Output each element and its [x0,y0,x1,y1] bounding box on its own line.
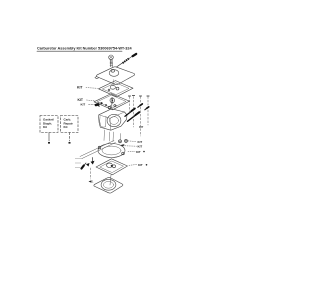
needle seat circle [125,139,128,142]
legend box 2 (Carb Repair Kit) [61,116,79,133]
dotted leader to pump gasket [87,99,95,102]
svg-text:KIT: KIT [81,102,86,106]
diaphragm center detail [107,163,113,167]
connector line to bottom cover [110,175,111,185]
svg-text:KIT: KIT [138,140,143,144]
small screw D [145,108,147,110]
svg-text:KIT: KIT [138,163,143,167]
svg-text:KIT: KIT [139,125,144,129]
pump diaphragm center detail [110,85,115,89]
needle screw N1 (diagonal, top right) [117,63,123,67]
carburetor body [99,109,127,130]
title underline [37,50,122,52]
dashed leader line (right col 1) [129,97,131,114]
svg-text:Carburetor Assembly Kit Number: Carburetor Assembly Kit Number 530069754… [37,46,132,50]
dash leader to small screw [89,103,96,105]
body bottom links [104,130,114,142]
dashed leader line (right col 3) [140,97,142,104]
svg-text:KIT: KIT [136,150,141,154]
body bore [107,114,121,126]
carburetor body top fittings [109,98,117,109]
gasket center circle [110,98,115,103]
svg-text:KIT: KIT [138,145,143,149]
spring arrow 2 [86,163,90,167]
svg-text:KIT: KIT [77,86,83,90]
pump cover screw hole line [113,80,115,86]
mounting screw B (diagonal right) [128,115,136,121]
metering gasket (oval) [98,144,125,158]
screw S1 pump cover screw head [109,55,114,60]
dotted leader to KIT label right [129,164,137,167]
idle screw assembly (lower left) [84,163,87,166]
gasket holes [100,102,102,104]
pump cover plate [96,67,134,85]
dashed leader line (right col 2) [133,97,135,109]
body left pump face [100,116,106,127]
tick marks top of dashed lines [128,95,149,98]
metering diaphragm plate [96,159,128,175]
svg-text:KIT: KIT [78,98,84,102]
bottom cover plate [94,178,123,194]
legend box 1 drop line [48,133,50,142]
dotted leads left of idle screw [76,159,83,168]
inlet screen circle [119,140,122,143]
legend box 2 drop line [69,133,71,142]
dotted leader 2 [125,145,137,147]
long pointer lines to idle screw [80,141,116,159]
svg-text:1: 1 [92,180,94,184]
mounting screw A (diagonal right) [125,111,132,116]
small screw near gasket [96,103,99,106]
dot after label 3 [143,151,145,153]
tiny arrow label [89,180,92,182]
pump cover corner tab [95,77,99,79]
dotted leader to pump diaphragm [86,87,98,90]
small screw C [138,105,141,107]
dotted leader 1 [128,140,137,143]
dotted leader 3 [128,150,135,152]
legend box 1 (Gasket/Diaph Kit) [40,116,58,133]
down arrow 1 [91,158,93,162]
svg-text:Kit: Kit [64,125,68,129]
pump cover boss [109,70,119,77]
small dash part [122,144,124,146]
screw S1 threaded shaft [110,60,112,67]
pump gasket plate [94,94,130,110]
dashed drop line with label [90,168,92,179]
dashed leader line (right col 4) [147,97,149,106]
pump diaphragm plate [99,81,134,97]
small screw S2 at body top-left [95,104,98,107]
bottom cover circle [101,179,116,190]
body top face edge [99,112,125,130]
svg-text:Kit: Kit [43,125,47,129]
